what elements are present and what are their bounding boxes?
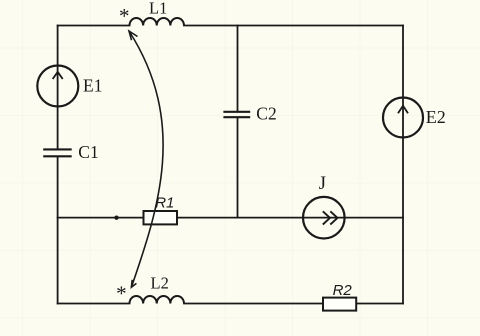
mutual coupling arrow between L1 and L2 [129, 31, 163, 287]
wire middle vertical lower [237, 118, 239, 217]
wire left vertical lower [57, 157, 59, 303]
svg-text:*: * [119, 4, 130, 28]
resistor R1 [144, 211, 178, 224]
inductor L2 [130, 296, 184, 304]
wire middle horizontal left [58, 217, 144, 219]
svg-text:C2: C2 [256, 104, 276, 124]
wire top-right segment [184, 25, 403, 27]
svg-text:*: * [116, 281, 127, 305]
wire top-left segment [58, 25, 130, 27]
svg-text:L2: L2 [151, 274, 169, 293]
svg-text:E2: E2 [426, 107, 446, 127]
inductor L1 [130, 18, 184, 26]
svg-text:J: J [319, 174, 326, 194]
wire right vertical [402, 26, 404, 304]
wire bottom-middle segment [184, 303, 323, 305]
current source J [303, 197, 345, 239]
junction node on middle wire [114, 216, 118, 220]
wire bottom-right segment [356, 303, 403, 305]
wire bottom-left segment [58, 303, 130, 305]
wire middle horizontal right [177, 217, 403, 219]
resistor R2 [323, 298, 356, 311]
capacitor C2 [223, 112, 250, 117]
wire middle vertical upper [237, 26, 239, 111]
svg-text:E1: E1 [83, 75, 102, 95]
source E2 [383, 98, 423, 138]
svg-text:L1: L1 [149, 0, 167, 18]
svg-text:R2: R2 [333, 282, 353, 299]
wire left vertical upper [57, 26, 59, 149]
capacitor C1 [43, 149, 71, 156]
source E1 [37, 66, 78, 107]
svg-text:C1: C1 [78, 142, 98, 162]
